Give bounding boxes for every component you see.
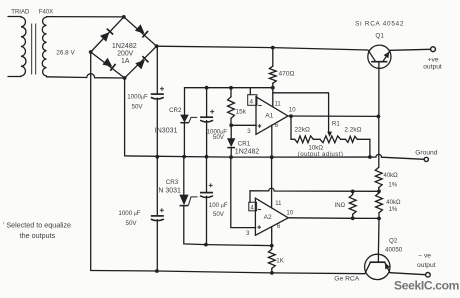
wire A1 output down to 22k [291,116,295,139]
wire bridge arm left-bottom [91,52,125,78]
R1 wiper arrow [327,132,332,137]
wire cap C2 column [206,88,208,245]
svg-text:2.2kΩ: 2.2kΩ [344,126,361,133]
wire bridge arm top-right [124,17,157,46]
capacitor C3 1000uF top plate [151,215,164,217]
svg-text:(output adjust): (output adjust) [298,151,344,158]
svg-text:100 µF: 100 µF [209,202,228,209]
diode CR1 1N2482 [227,138,235,147]
transistor Q1 base bar [371,61,387,63]
svg-text:50V: 50V [213,211,225,218]
svg-text:TRIAD: TRIAD [11,10,30,16]
svg-text:10: 10 [286,210,293,216]
svg-text:50V: 50V [132,103,144,110]
wire CR2 cathode to ground rail [183,123,185,157]
svg-text:1000µF: 1000µF [127,94,148,101]
svg-text:26.8 V: 26.8 V [56,50,75,57]
svg-text:Q2: Q2 [389,238,398,245]
wire divider bottom to Q2 base [377,218,380,254]
op-amp A2 pin6 stub [271,227,273,246]
wire CR3 column top [183,157,185,195]
op-amp A2 triangle [255,198,288,235]
svg-text:output: output [417,262,436,269]
wire 2.2k to ground rail [357,139,370,157]
svg-text:11: 11 [275,201,282,207]
wire 15k bottom [230,118,232,125]
transistor Q2 base bar [370,261,386,263]
svg-text:A2: A2 [264,214,272,221]
svg-text:40kΩ: 40kΩ [386,200,401,206]
diode bridge bottom-right 1N2482 [135,60,145,70]
wire A1 output to Q1 base junction [288,115,378,117]
capacitor C2 1000uF top plate [200,116,213,118]
wire reference node to R1 wiper [273,88,329,133]
op-amp A1 plus sign [258,124,262,128]
svg-text:40050: 40050 [385,247,403,254]
wire bridge arm left-top [91,17,124,52]
transistor Q2 base lead inside [377,254,379,262]
svg-text:R1: R1 [332,121,340,128]
op-amp A2 pin4 box [249,202,257,211]
plus sign C2 [210,110,214,114]
wire 1K ends [271,246,273,273]
plus sign C4 [209,183,213,187]
svg-text:output: output [423,64,442,71]
op-amp A1 triangle [256,97,288,135]
op-amp A2 pin11 stub to ground rail [271,157,273,208]
wire bridge left node down to bottom rail [90,52,92,271]
svg-text:Si RCA 40542: Si RCA 40542 [355,20,404,27]
wire 1N top [352,191,354,194]
wire top positive rail [157,46,368,50]
terminal Ground [424,157,428,161]
wire primary top lead [8,16,21,18]
svg-text:1%: 1% [389,207,398,213]
svg-text:1K: 1K [276,258,284,265]
potentiometer R1 10k [320,136,341,143]
svg-text:1000 µF: 1000 µF [118,210,140,217]
svg-text:200V: 200V [117,50,133,57]
resistor 15k [228,97,235,119]
transformer T1 primary winding [21,17,26,77]
svg-text:Ground: Ground [415,149,438,156]
transistor Q2 collector line [365,262,371,273]
op-amp A1 pin6 stub to ground rail [271,125,273,157]
svg-text:’ Selected to equalize: ’ Selected to equalize [3,220,71,229]
wire secondary bottom to bridge bottom node [47,74,125,78]
resistor 40k upper 1% [375,167,382,187]
diode bridge top-left 1N2482 [100,32,109,42]
wire bottom rail (most negative) [91,271,365,274]
svg-text:+ve: +ve [428,56,439,63]
transistor Q1 emitter arrow [384,52,390,59]
svg-text:Ge RCA: Ge RCA [334,275,359,282]
capacitor C3 1000uF bottom plate [151,219,164,221]
zener CR2 1N3031 [180,115,189,123]
op-amp A2 plus sign [257,225,261,229]
wire top rail Q1 emitter to +ve terminal [390,49,430,50]
svg-text:INΩ: INΩ [335,203,346,209]
svg-text:the outputs: the outputs [20,231,56,240]
zener CR3 1N3031 [179,195,188,206]
wire A2 pin4 to divider midpoint [250,188,379,202]
wire 40k lower ends [378,191,380,218]
wire 470 top [272,48,274,67]
svg-text:F40X: F40X [39,10,53,16]
svg-text:22kΩ: 22kΩ [295,126,310,133]
transistor Q2 emitter arrow [385,263,390,270]
terminal +ve output [431,47,436,52]
wire R1 to 2.2k [341,138,346,140]
wire Q1 base junction to 40k upper [378,116,380,167]
wire 22k to R1 [313,138,320,140]
op-amp A1 minus sign [258,105,261,107]
wire node to CR1 [230,125,232,138]
svg-text:IN3031: IN3031 [155,127,178,134]
plus sign C3 [160,208,164,212]
svg-text:10: 10 [289,108,296,114]
svg-text:CR2: CR2 [169,107,182,114]
capacitor C2 1000uF bottom plate [200,120,213,122]
wire CR2 column top [184,88,186,116]
op-amp A2 minus sign [258,209,261,211]
transistor Q1 circle [368,45,391,68]
wire Q2 emitter to -ve terminal [390,273,426,275]
capacitor C4 100uF bottom plate [200,196,213,198]
transformer T1 secondary winding [42,17,46,77]
wire cap C1 column [156,46,158,271]
wire Q1 base down [378,62,380,117]
resistor 1N [349,195,356,215]
svg-text:15k: 15k [236,109,247,116]
svg-text:1A: 1A [121,58,130,65]
capacitor C1 1000uF top plate [151,93,164,95]
transformer core [32,24,36,75]
wire 15k top [230,88,232,97]
svg-text:50V: 50V [126,220,138,227]
svg-text:40kΩ: 40kΩ [384,173,399,179]
op-amp A1 pin4 stub [249,88,251,95]
resistor 2.2k [346,136,358,142]
svg-text:CR1: CR1 [238,141,251,148]
resistor 1K [268,249,275,268]
wire ground rail [125,154,425,159]
svg-text:IN 3031: IN 3031 [156,188,181,195]
transistor Q2 circle [365,254,390,279]
plus sign C1 [160,87,164,91]
svg-text:50V: 50V [213,134,225,141]
wire 15k node to A1 pin3 [231,124,256,126]
capacitor C4 100uF top plate [200,192,213,194]
diode bridge top-right 1N2482 [135,24,145,33]
wire 1N bottom [352,214,354,218]
transistor Q2 emitter line [385,262,390,272]
resistor 470 ohm [269,66,276,83]
wire secondary top to bridge top node [47,16,124,18]
junction dots [122,15,126,19]
wire bridge arm bottom-right [125,46,157,78]
svg-text:11: 11 [275,102,282,108]
diode bridge bottom-left 1N2482 [102,58,112,67]
op-amp A1 pin11 stub [272,93,274,107]
svg-text:1%: 1% [388,182,397,188]
wire A2 pin3 from ground rail [231,157,256,228]
svg-text:SeekIC.com: SeekIC.com [394,279,459,293]
svg-text:1N2482: 1N2482 [235,149,260,156]
wire 40k upper to mid node [378,188,380,192]
wire bridge bottom node down [124,78,126,156]
wire A2 output to divider bottom [288,217,379,220]
svg-text:1N2482: 1N2482 [112,42,137,50]
svg-text:− ve: − ve [418,253,431,260]
svg-text:CR3: CR3 [166,179,179,186]
capacitor C1 1000uF bottom plate [151,97,164,99]
transistor Q1 emitter line [383,50,390,61]
wire reference rail [185,87,273,89]
svg-text:Q1: Q1 [375,32,384,39]
resistor 22k [295,136,314,143]
terminal -ve output [426,273,431,278]
wire 470 bottom [272,83,274,87]
op-amp A1 pin4 box [248,95,257,106]
transistor Q1 collector line [368,50,376,62]
wire CR3 to negative reference rail [184,206,272,246]
wire primary bottom lead [8,76,21,78]
resistor 40k lower 1% [376,193,383,213]
svg-text:470Ω: 470Ω [279,71,295,78]
svg-text:A1: A1 [265,113,273,120]
wire CR1 cathode to ground rail [230,148,232,158]
